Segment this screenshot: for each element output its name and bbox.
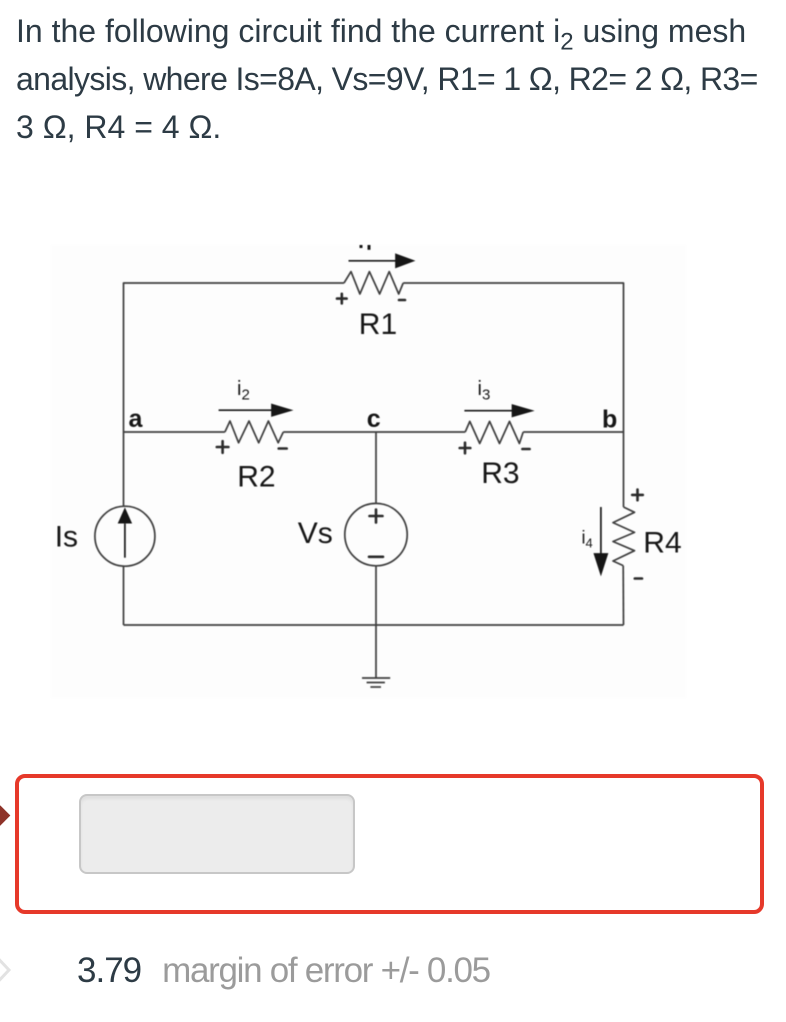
ground bar 3 xyxy=(370,686,381,688)
polarity plus R1 xyxy=(337,297,347,300)
answer input field xyxy=(79,794,355,874)
polarity minus R4 xyxy=(635,577,642,580)
svg-text:R1: R1 xyxy=(359,308,397,341)
arrow inside Is (upward) xyxy=(124,524,126,558)
polarity plus R4 xyxy=(632,494,643,497)
svg-text:a: a xyxy=(129,405,144,433)
wire bottom xyxy=(124,624,624,626)
clipped i1 label marks xyxy=(360,245,363,248)
plus inside Vs xyxy=(375,510,378,523)
resistor R4 (vertical) xyxy=(613,507,635,566)
wire R2 to R3 through node c xyxy=(283,431,465,433)
left edge chevron xyxy=(0,951,20,991)
svg-text:Vs: Vs xyxy=(298,517,333,550)
svg-text:c: c xyxy=(367,405,381,433)
wire top right (R1 to node b column) xyxy=(403,283,623,432)
svg-text:Is: Is xyxy=(55,520,78,553)
wire Vs to bottom wire and ground stem xyxy=(375,566,377,678)
red incorrect-answer box xyxy=(15,774,764,914)
current arrow i1 above R1 xyxy=(349,260,398,262)
resistor R1 xyxy=(344,272,403,294)
polarity plus R3 xyxy=(460,447,471,450)
resistor R3 xyxy=(465,421,523,443)
svg-text:R4: R4 xyxy=(643,526,681,559)
svg-text:R3: R3 xyxy=(481,457,519,490)
voltage source Vs circle xyxy=(345,503,407,565)
polarity minus R1 xyxy=(399,299,405,302)
ground bar 1 xyxy=(362,677,390,679)
ground bar 2 xyxy=(367,682,385,684)
current arrow i2 xyxy=(219,409,273,411)
polarity minus R2 xyxy=(279,447,287,450)
wire node a to R2 xyxy=(124,431,225,433)
wire left column: Is to bottom wire xyxy=(123,566,125,625)
dark red marker diamond xyxy=(0,801,10,831)
wire left column: node a down to Is xyxy=(123,432,125,506)
polarity plus R2 xyxy=(217,446,229,449)
answer value line xyxy=(77,951,490,991)
minus inside Vs xyxy=(369,555,383,558)
resistor R2 xyxy=(225,421,283,443)
current arrow i3 xyxy=(464,410,513,412)
circuit schematic image xyxy=(51,245,686,698)
current source Is circle xyxy=(95,506,155,566)
wire left column top (node a up to top wire) xyxy=(124,283,345,432)
wire R3 to node b xyxy=(523,431,623,433)
polarity minus R3 xyxy=(522,448,529,451)
wire right column: node b down to R4 xyxy=(623,432,625,507)
svg-text:b: b xyxy=(602,406,617,434)
question text xyxy=(16,7,758,151)
current arrow i4 (downward) xyxy=(600,507,602,555)
wire node c down to Vs xyxy=(375,432,377,503)
svg-text:R2: R2 xyxy=(237,460,275,493)
wire right column: R4 to bottom wire xyxy=(622,566,624,625)
